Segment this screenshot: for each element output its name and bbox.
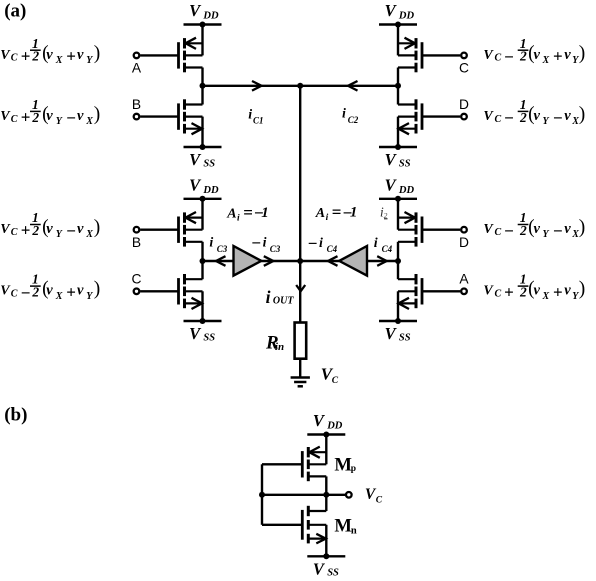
svg-text:2: 2 bbox=[31, 49, 39, 64]
svg-text:in: in bbox=[275, 341, 284, 353]
label iC3 bbox=[209, 236, 227, 254]
svg-text:2: 2 bbox=[31, 110, 39, 125]
power rail VSS bbox=[184, 318, 222, 324]
label VC - 1/2 (vX + vY) lower bbox=[0, 272, 100, 303]
terminal C bbox=[459, 53, 469, 76]
power rail VDD bbox=[184, 22, 222, 28]
transistor M2 (NMOS, gate B) bbox=[179, 99, 203, 134]
wire gate C bbox=[422, 54, 460, 56]
svg-text:SS: SS bbox=[399, 332, 411, 343]
svg-text:): ) bbox=[579, 43, 586, 64]
node lower-right drain junction bbox=[395, 258, 401, 264]
power rail VDD bbox=[379, 196, 417, 202]
label -iC4 bbox=[308, 234, 338, 254]
svg-text:D: D bbox=[459, 97, 469, 112]
wire M7 source/bulk to VDD bbox=[397, 199, 399, 261]
svg-text:C: C bbox=[376, 495, 383, 505]
wire M8 drain to node, source/bulk to VSS bbox=[397, 261, 399, 321]
svg-text:i: i bbox=[326, 213, 329, 223]
svg-text:(b): (b) bbox=[4, 405, 27, 426]
label VC + 1/2 (vY - vX) lower bbox=[0, 210, 100, 241]
label -iC3 bbox=[251, 234, 280, 254]
label Mp bbox=[334, 454, 356, 475]
transistor Mp (PMOS) bbox=[302, 447, 326, 482]
svg-text:i: i bbox=[263, 236, 267, 251]
wire Mp source/bulk to VDD bbox=[325, 435, 327, 495]
power rail VDD bbox=[307, 432, 345, 438]
label VC (control voltage at ground) bbox=[321, 365, 339, 386]
transistor Mn (NMOS) bbox=[302, 506, 326, 544]
node upper-left drain junction bbox=[200, 83, 206, 89]
svg-text:=: = bbox=[332, 203, 342, 222]
svg-text:C2: C2 bbox=[348, 115, 359, 125]
wire iC4 (right buffer to lower-right node) bbox=[367, 256, 398, 266]
label VSS bbox=[385, 150, 411, 169]
svg-text:v: v bbox=[46, 47, 53, 63]
wire iC2 (center to upper-right node) bbox=[300, 81, 398, 91]
svg-text:): ) bbox=[579, 104, 586, 125]
svg-text:C: C bbox=[11, 53, 18, 64]
svg-text:C: C bbox=[132, 272, 142, 287]
svg-text:X: X bbox=[55, 55, 63, 66]
svg-text:C4: C4 bbox=[327, 244, 338, 254]
label Mn bbox=[334, 515, 357, 536]
power rail VSS bbox=[307, 553, 345, 559]
svg-text:Y: Y bbox=[86, 55, 93, 66]
node lower-left drain junction bbox=[200, 258, 206, 264]
label VDD bbox=[385, 1, 415, 21]
svg-text:A: A bbox=[132, 61, 142, 76]
svg-text:): ) bbox=[94, 43, 101, 64]
svg-text:v: v bbox=[77, 283, 84, 299]
svg-text:i: i bbox=[319, 236, 323, 251]
svg-text:DD: DD bbox=[202, 11, 219, 22]
transistor M1 (PMOS, gate A) bbox=[179, 38, 203, 73]
label VDD bbox=[189, 1, 219, 21]
svg-text:2: 2 bbox=[519, 285, 527, 300]
terminal D bbox=[459, 97, 469, 119]
label VC + 1/2 (vY - vX) bbox=[0, 97, 100, 128]
svg-text:Y: Y bbox=[56, 229, 63, 240]
svg-text:+: + bbox=[504, 282, 514, 301]
terminal C bbox=[132, 272, 142, 294]
svg-text:n: n bbox=[351, 525, 357, 536]
label Rin bbox=[265, 332, 284, 353]
svg-text:C: C bbox=[495, 114, 502, 125]
svg-text:+: + bbox=[66, 46, 76, 65]
wire iC3 (left buffer to lower-left node) bbox=[203, 256, 234, 266]
label VC (output) bbox=[365, 486, 383, 506]
wire -iC4 (right buffer output to center) bbox=[300, 256, 339, 266]
svg-text:X: X bbox=[85, 116, 93, 127]
power rail VDD bbox=[379, 22, 417, 28]
svg-text:i: i bbox=[342, 107, 346, 122]
svg-text:): ) bbox=[94, 104, 101, 125]
node upper-right drain junction bbox=[395, 83, 401, 89]
svg-text:B: B bbox=[132, 97, 141, 112]
transistor M4 (NMOS, gate D) bbox=[398, 99, 422, 134]
label iC2 bbox=[342, 107, 359, 125]
svg-text:i: i bbox=[374, 236, 378, 251]
wire M5 source/bulk to VDD bbox=[201, 199, 203, 261]
label VDD bbox=[313, 411, 343, 431]
svg-text:X: X bbox=[542, 291, 550, 302]
wire gate A (lower) bbox=[422, 290, 460, 292]
svg-text:v: v bbox=[564, 47, 571, 63]
wire Mn drain to output, source/bulk to VSS bbox=[325, 495, 327, 557]
node center top bbox=[297, 83, 303, 89]
svg-text:2: 2 bbox=[31, 285, 39, 300]
transistor M8 (NMOS, gate A) bbox=[398, 274, 422, 309]
svg-text:A: A bbox=[226, 206, 236, 221]
wire gate C (lower) bbox=[140, 290, 178, 292]
svg-text:C4: C4 bbox=[382, 244, 393, 254]
svg-text:i: i bbox=[248, 108, 252, 123]
wire gate B bbox=[140, 115, 178, 117]
node output at drain bbox=[323, 492, 329, 498]
svg-text:X: X bbox=[85, 229, 93, 240]
label Ai = -1 (left) bbox=[226, 203, 269, 224]
svg-text:C3: C3 bbox=[270, 244, 281, 254]
svg-text:−: − bbox=[308, 234, 318, 253]
svg-text:DD: DD bbox=[202, 185, 219, 196]
svg-text:DD: DD bbox=[398, 11, 415, 22]
wire resistor to ground bbox=[299, 359, 301, 378]
wire M1 source/bulk to VDD bbox=[201, 25, 203, 86]
wire output to terminal VC bbox=[262, 494, 345, 496]
svg-text:OUT: OUT bbox=[273, 296, 294, 307]
svg-text:C: C bbox=[495, 289, 502, 300]
svg-text:−: − bbox=[553, 222, 563, 241]
svg-text:): ) bbox=[94, 217, 101, 238]
svg-text:M: M bbox=[334, 515, 352, 536]
svg-text:X: X bbox=[55, 291, 63, 302]
svg-text:2: 2 bbox=[519, 49, 527, 64]
svg-text:v: v bbox=[46, 221, 53, 237]
svg-text:−: − bbox=[504, 109, 514, 128]
svg-text:=: = bbox=[243, 203, 253, 222]
svg-text:p: p bbox=[351, 464, 356, 474]
terminal VC bbox=[346, 492, 352, 498]
wire gate B (lower) bbox=[140, 228, 178, 230]
svg-text:v: v bbox=[534, 108, 541, 124]
svg-text:v: v bbox=[77, 47, 84, 63]
power rail VSS bbox=[379, 318, 417, 324]
svg-text:DD: DD bbox=[398, 185, 415, 196]
power rail VSS bbox=[184, 144, 222, 150]
label VC - 1/2 (vY - vX) lower bbox=[483, 210, 585, 241]
svg-text:v: v bbox=[77, 221, 84, 237]
wire gate D bbox=[422, 115, 460, 117]
label VSS bbox=[385, 324, 411, 343]
label VC - 1/2 (vX + vY) bbox=[483, 36, 585, 67]
svg-text:SS: SS bbox=[203, 332, 215, 343]
wire gate feedback (left rail) bbox=[262, 464, 302, 525]
resistor Rin bbox=[295, 323, 307, 359]
label VC + 1/2 (vX + vY) bbox=[0, 36, 100, 66]
svg-text:2: 2 bbox=[519, 223, 527, 238]
wire iC1 (upper-left node to center) bbox=[203, 81, 301, 91]
svg-text:v: v bbox=[534, 283, 541, 299]
svg-text:i: i bbox=[266, 287, 271, 307]
label iC1 bbox=[248, 108, 263, 126]
wire -iC3 (left buffer output to center) bbox=[261, 256, 300, 266]
svg-text:C: C bbox=[11, 227, 18, 238]
label VSS bbox=[189, 324, 215, 343]
svg-text:B: B bbox=[132, 235, 141, 250]
svg-text:v: v bbox=[77, 108, 84, 124]
terminal B bbox=[132, 227, 141, 250]
svg-text:C: C bbox=[495, 53, 502, 64]
label VC - 1/2 (vY - vX) bbox=[483, 97, 585, 128]
wire M4 drain to node, source/bulk to VSS bbox=[397, 86, 399, 147]
svg-text:−: − bbox=[66, 222, 76, 241]
buffer A1 (Ai = -1, left) bbox=[234, 246, 262, 276]
svg-text:+: + bbox=[553, 46, 563, 65]
label VDD bbox=[189, 176, 219, 196]
svg-text:−: − bbox=[553, 109, 563, 128]
svg-text:2: 2 bbox=[519, 110, 527, 125]
label VSS bbox=[189, 150, 215, 169]
label i2 (bias current) bbox=[380, 206, 388, 221]
svg-text:): ) bbox=[579, 279, 586, 300]
svg-text:C1: C1 bbox=[253, 116, 264, 126]
wire M2 drain to node, source/bulk to VSS bbox=[201, 86, 203, 147]
svg-text:SS: SS bbox=[203, 158, 215, 169]
power rail VDD bbox=[184, 196, 222, 202]
svg-text:C: C bbox=[495, 227, 502, 238]
svg-text:1: 1 bbox=[261, 205, 269, 221]
svg-text:A: A bbox=[315, 206, 325, 221]
label VC + 1/2 (vX + vY) lower bbox=[483, 272, 585, 302]
svg-text:X: X bbox=[542, 55, 550, 66]
ground bbox=[291, 378, 310, 387]
svg-text:i: i bbox=[237, 213, 240, 223]
node center bottom bbox=[297, 258, 303, 264]
wire M3 source/bulk to VDD bbox=[397, 25, 399, 86]
label VSS bbox=[313, 559, 339, 578]
power rail VSS bbox=[379, 144, 417, 150]
svg-text:v: v bbox=[534, 221, 541, 237]
svg-text:Y: Y bbox=[543, 229, 550, 240]
svg-text:−: − bbox=[251, 234, 261, 253]
svg-text:v: v bbox=[564, 108, 571, 124]
svg-text:v: v bbox=[46, 108, 53, 124]
label iOUT bbox=[266, 287, 295, 307]
svg-text:v: v bbox=[534, 47, 541, 63]
svg-text:−: − bbox=[504, 222, 514, 241]
buffer A2 (Ai = -1, right) bbox=[339, 246, 367, 276]
svg-text:+: + bbox=[21, 221, 31, 240]
label iC4 bbox=[374, 236, 393, 254]
svg-text:−: − bbox=[66, 109, 76, 128]
svg-text:+: + bbox=[66, 282, 76, 301]
svg-text:Y: Y bbox=[543, 116, 550, 127]
svg-text:+: + bbox=[21, 46, 31, 65]
svg-text:C: C bbox=[11, 289, 18, 300]
svg-text:): ) bbox=[579, 217, 586, 238]
node gate-output junction bbox=[259, 492, 265, 498]
svg-text:SS: SS bbox=[327, 568, 339, 579]
svg-text:Y: Y bbox=[86, 291, 93, 302]
terminal B bbox=[132, 97, 141, 119]
terminal D bbox=[459, 227, 469, 250]
svg-text:v: v bbox=[564, 283, 571, 299]
wire center vertical (top node to bottom node) bbox=[299, 86, 301, 261]
svg-text:(a): (a) bbox=[4, 1, 26, 22]
svg-text:v: v bbox=[564, 221, 571, 237]
svg-text:Y: Y bbox=[56, 116, 63, 127]
transistor M3 (PMOS, gate C) bbox=[398, 38, 422, 73]
svg-text:SS: SS bbox=[399, 158, 411, 169]
svg-text:C: C bbox=[332, 376, 339, 386]
wire M6 drain to node, source/bulk to VSS bbox=[201, 261, 203, 321]
terminal A bbox=[132, 53, 142, 76]
wire gate D (lower) bbox=[422, 228, 460, 230]
svg-text:+: + bbox=[21, 108, 31, 127]
svg-text:2: 2 bbox=[31, 223, 39, 238]
svg-text:D: D bbox=[459, 235, 469, 250]
svg-text:−: − bbox=[21, 283, 31, 302]
svg-text:1: 1 bbox=[350, 205, 358, 221]
svg-text:C: C bbox=[459, 61, 469, 76]
svg-text:v: v bbox=[46, 283, 53, 299]
svg-text:): ) bbox=[94, 279, 101, 300]
transistor M7 (PMOS, gate D) bbox=[398, 212, 422, 247]
svg-text:+: + bbox=[553, 282, 563, 301]
svg-text:C: C bbox=[11, 114, 18, 125]
svg-text:−: − bbox=[504, 47, 514, 66]
terminal A bbox=[459, 272, 469, 294]
svg-text:DD: DD bbox=[326, 421, 343, 432]
svg-text:i: i bbox=[209, 236, 213, 251]
svg-text:M: M bbox=[334, 454, 352, 475]
transistor M5 (PMOS, gate B) bbox=[179, 212, 203, 247]
svg-text:A: A bbox=[459, 272, 469, 287]
wire iOUT (center node down) bbox=[296, 261, 305, 323]
label Ai = -1 (right) bbox=[315, 203, 358, 224]
wire gate A bbox=[140, 54, 178, 56]
transistor M6 (NMOS, gate C) bbox=[179, 274, 203, 309]
svg-text:C3: C3 bbox=[217, 244, 228, 254]
label VDD bbox=[385, 176, 415, 196]
